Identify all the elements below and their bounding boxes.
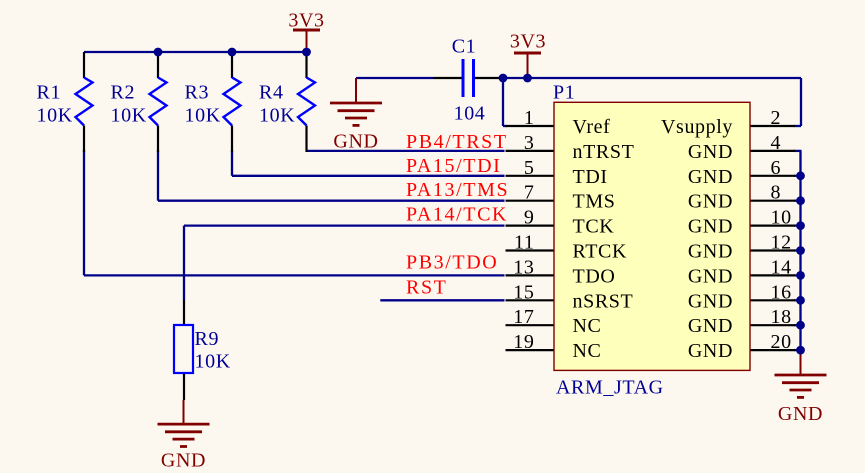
svg-text:GND: GND <box>688 191 733 213</box>
pin 3 stub <box>506 150 555 152</box>
svg-text:PB4/TRST: PB4/TRST <box>406 131 508 153</box>
ground stem bottom <box>183 400 185 424</box>
svg-text:104: 104 <box>454 103 486 125</box>
wire pin 12 stub to GND bus <box>794 249 802 251</box>
svg-text:PA15/TDI: PA15/TDI <box>406 155 501 177</box>
ground GND right <box>775 375 827 397</box>
svg-text:R9: R9 <box>195 328 220 350</box>
ground GND bottom <box>158 424 210 446</box>
svg-text:RST: RST <box>406 277 447 299</box>
svg-text:GND: GND <box>688 166 733 188</box>
wire pin 20 stub to GND bus <box>794 349 802 351</box>
lead R1 top <box>83 52 85 78</box>
svg-text:GND: GND <box>688 141 733 163</box>
wire top 3V3 bus <box>84 51 307 53</box>
svg-text:13: 13 <box>513 256 534 278</box>
junction R4/3V3 <box>302 48 311 57</box>
junction 3V3 right <box>523 74 532 83</box>
wire GND to C1 left <box>356 77 433 79</box>
svg-text:PB3/TDO: PB3/TDO <box>406 252 498 274</box>
wire PB3/TDO horizontal to pin 13 <box>84 274 505 276</box>
pin 7 stub <box>506 200 555 202</box>
pin 19 stub <box>506 349 555 351</box>
pin 15 stub <box>506 299 555 301</box>
svg-text:PA13/TMS: PA13/TMS <box>406 179 509 201</box>
pin 4 stub <box>750 150 795 152</box>
lead R9 top <box>183 300 185 325</box>
svg-text:NC: NC <box>573 315 602 337</box>
svg-text:R2: R2 <box>111 82 136 104</box>
junction pin 8 GND bus <box>796 196 805 205</box>
connector P1 body <box>554 102 750 370</box>
svg-text:GND: GND <box>161 450 206 472</box>
pin 12 stub <box>750 249 795 251</box>
ground stem left <box>355 78 357 103</box>
svg-text:3V3: 3V3 <box>510 31 546 53</box>
svg-text:Vsupply: Vsupply <box>661 116 733 138</box>
wire down to pin 1 <box>502 78 504 126</box>
lead R4 bottom <box>305 126 307 153</box>
svg-text:10K: 10K <box>185 105 221 127</box>
svg-text:Vref: Vref <box>573 116 611 138</box>
svg-text:C1: C1 <box>452 35 477 57</box>
svg-text:nSRST: nSRST <box>573 290 634 312</box>
wire PA13/TMS horizontal to pin 7 <box>158 200 505 202</box>
svg-text:R3: R3 <box>185 82 210 104</box>
resistor R2 zigzag <box>150 78 167 126</box>
svg-text:TMS: TMS <box>573 191 616 213</box>
svg-text:3: 3 <box>524 132 535 154</box>
svg-text:12: 12 <box>771 232 792 254</box>
wire PB4/TRST horizontal to pin 3 <box>307 150 505 152</box>
junction pin 20 GND bus <box>796 346 805 355</box>
svg-text:14: 14 <box>771 256 792 278</box>
wire pin 6 stub to GND bus <box>794 175 802 177</box>
pin 6 stub <box>750 175 795 177</box>
capacitor C1 plates <box>462 59 465 97</box>
lead C1 left <box>433 77 462 79</box>
svg-text:10K: 10K <box>195 351 231 373</box>
lead R3 top <box>231 52 233 78</box>
svg-text:GND: GND <box>688 315 733 337</box>
lead R9 bottom <box>183 373 185 400</box>
lead R4 top <box>305 52 307 78</box>
wire pin 10 stub to GND bus <box>794 224 802 226</box>
svg-text:NC: NC <box>573 340 602 362</box>
resistor R3 zigzag <box>224 78 241 126</box>
svg-text:15: 15 <box>513 281 534 303</box>
svg-text:1: 1 <box>524 107 535 129</box>
junction R3 top <box>228 48 237 57</box>
svg-text:3V3: 3V3 <box>288 9 324 31</box>
junction pin 12 GND bus <box>796 246 805 255</box>
lead C1 right <box>475 77 504 79</box>
svg-text:17: 17 <box>513 306 534 328</box>
wire PA15/TDI horizontal to pin 5 <box>232 175 505 177</box>
pin 20 stub <box>750 349 795 351</box>
junction pin 14 GND bus <box>796 271 805 280</box>
lead R2 bottom <box>157 126 159 153</box>
svg-text:GND: GND <box>688 340 733 362</box>
svg-text:4: 4 <box>771 132 782 154</box>
svg-text:6: 6 <box>771 157 782 179</box>
svg-text:2: 2 <box>771 107 782 129</box>
wire PA14/TCK horizontal to pin 9 <box>184 224 505 226</box>
junction pin 10 GND bus <box>796 221 805 230</box>
wire pin 8 stub to GND bus <box>794 200 802 202</box>
wire pin 18 stub to GND bus <box>794 324 802 326</box>
resistor R1 zigzag <box>76 78 93 126</box>
svg-text:TDO: TDO <box>573 265 616 287</box>
svg-text:8: 8 <box>771 182 782 204</box>
svg-text:TCK: TCK <box>573 216 615 238</box>
wire down to pin 2 <box>800 78 802 126</box>
pin 2 stub <box>750 125 795 127</box>
pin 9 stub <box>506 225 555 227</box>
pin 16 stub <box>750 299 795 301</box>
svg-text:10K: 10K <box>259 105 295 127</box>
svg-text:GND: GND <box>688 265 733 287</box>
pin 13 stub <box>506 274 555 276</box>
svg-text:PA14/TCK: PA14/TCK <box>406 203 508 225</box>
junction pin 18 GND bus <box>796 321 805 330</box>
svg-text:18: 18 <box>771 306 792 328</box>
ground GND left <box>330 103 382 125</box>
wire into pin 1 stub <box>503 125 507 127</box>
wire R2 bottom vertical <box>157 150 159 201</box>
svg-text:GND: GND <box>778 403 823 425</box>
pin 10 stub <box>750 225 795 227</box>
junction pin 6 GND bus <box>796 171 805 180</box>
svg-text:GND: GND <box>688 241 733 263</box>
svg-text:11: 11 <box>514 232 534 254</box>
wire C1 right to Vsupply top <box>503 77 801 79</box>
junction C1/pin1 <box>499 74 508 83</box>
svg-text:20: 20 <box>771 331 792 353</box>
junction R2 top <box>154 48 163 57</box>
junction pin 16 GND bus <box>796 296 805 305</box>
pin 5 stub <box>506 175 555 177</box>
pin 18 stub <box>750 324 795 326</box>
wire into pin 2 stub <box>794 125 801 127</box>
svg-text:nTRST: nTRST <box>573 141 635 163</box>
svg-text:5: 5 <box>524 157 535 179</box>
svg-text:ARM_JTAG: ARM_JTAG <box>556 377 664 399</box>
lead R2 top <box>157 52 159 78</box>
svg-text:TDI: TDI <box>573 166 608 188</box>
pin 1 stub <box>506 125 555 127</box>
wire RST horizontal to pin 15 <box>380 299 504 301</box>
wire GND bus right vertical <box>799 151 801 350</box>
svg-text:GND: GND <box>333 131 378 153</box>
svg-text:10: 10 <box>771 207 792 229</box>
lead R3 bottom <box>231 126 233 153</box>
pin 8 stub <box>750 200 795 202</box>
pin 11 stub <box>506 249 555 251</box>
ground stem right <box>800 350 802 375</box>
pin 14 stub <box>750 274 795 276</box>
svg-text:19: 19 <box>513 331 534 353</box>
power 3V3 left <box>293 30 320 52</box>
svg-text:10K: 10K <box>37 105 73 127</box>
wire pin 4 stub to GND bus <box>794 150 802 152</box>
svg-text:RTCK: RTCK <box>573 241 628 263</box>
lead R1 bottom <box>83 126 85 153</box>
svg-text:R1: R1 <box>37 82 62 104</box>
wire TCK node down to R9 <box>183 226 185 301</box>
svg-text:16: 16 <box>771 281 792 303</box>
wire R1 bottom to TDO row vertical <box>83 150 85 275</box>
svg-text:9: 9 <box>524 207 535 229</box>
svg-text:7: 7 <box>524 182 535 204</box>
pin 17 stub <box>506 324 555 326</box>
svg-text:10K: 10K <box>111 105 147 127</box>
wire pin 14 stub to GND bus <box>794 274 802 276</box>
resistor R4 zigzag <box>298 78 315 126</box>
svg-text:P1: P1 <box>553 82 575 104</box>
svg-text:GND: GND <box>688 216 733 238</box>
power 3V3 right <box>514 53 541 78</box>
svg-text:GND: GND <box>688 290 733 312</box>
wire R3 bottom vertical <box>231 150 233 176</box>
wire pin 16 stub to GND bus <box>794 299 802 301</box>
resistor R9 body <box>174 325 193 373</box>
svg-text:R4: R4 <box>259 82 284 104</box>
